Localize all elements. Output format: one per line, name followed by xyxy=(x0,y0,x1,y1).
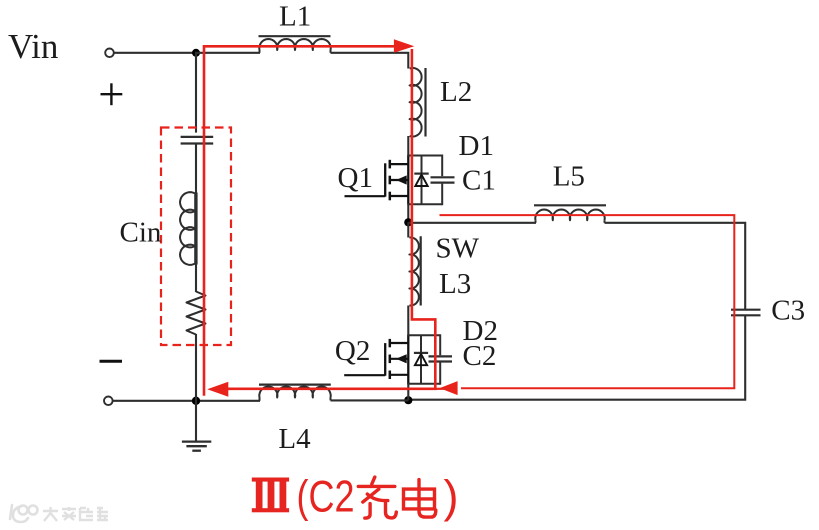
inductor L3 xyxy=(409,236,420,305)
svg-text:L4: L4 xyxy=(278,423,311,455)
svg-text:(C2: (C2 xyxy=(297,473,355,522)
transistor Q2 (N-MOSFET) xyxy=(344,339,408,379)
diode D1 (body diode) xyxy=(414,156,428,205)
wire: red current path left loop (Cin branch up, top rail right) xyxy=(204,46,396,396)
inductor L4 xyxy=(259,385,331,401)
snubber box of Q1 (D1/C1 parallel branch) xyxy=(407,155,442,206)
diode D2 (body diode) xyxy=(414,335,428,383)
inductor L5 xyxy=(534,205,606,223)
svg-text:C2: C2 xyxy=(463,340,497,372)
snubber box of Q2 (D2/C2 parallel branch) xyxy=(407,334,440,384)
transistor Q1 (N-MOSFET) xyxy=(345,160,409,201)
wire: bottom rail junction to L4 xyxy=(331,399,409,401)
wire: top rail to L1 xyxy=(195,52,260,54)
capacitor Cin plates xyxy=(181,137,214,144)
node SW junction xyxy=(404,218,412,226)
wire: input node down to Cin xyxy=(195,53,197,133)
svg-text:L2: L2 xyxy=(440,76,472,108)
caption roman numeral III xyxy=(252,478,289,513)
svg-text:D1: D1 xyxy=(459,130,494,162)
node: ground junction xyxy=(192,397,200,405)
svg-text:Q1: Q1 xyxy=(338,162,373,194)
capacitor C1 xyxy=(431,177,455,182)
wire: L5 to right rail xyxy=(605,223,746,309)
dashed box around Cin xyxy=(161,128,231,346)
svg-text:C1: C1 xyxy=(462,165,496,197)
red arrow left at bottom rail near ground xyxy=(207,382,228,397)
wire: L2 to Q1 drain xyxy=(407,136,409,157)
wire: ESR to ground rail xyxy=(195,334,197,401)
minus sign xyxy=(100,360,123,363)
inductor: Cin ESL coil xyxy=(180,192,197,265)
capacitor C2 xyxy=(429,356,453,361)
svg-text:Q2: Q2 xyxy=(335,335,370,367)
wire: Vin terminal to input node xyxy=(114,52,196,54)
wire: SW node down to L3 xyxy=(407,222,409,237)
svg-text:Vin: Vin xyxy=(8,27,58,66)
node: input junction xyxy=(192,49,200,57)
inductor L1 xyxy=(259,36,331,53)
node: bottom junction at Q2 source xyxy=(404,396,412,404)
watermark text xyxy=(43,507,108,521)
wire: Q1 drain-source channel line xyxy=(407,156,409,205)
wire: red current path C3 loop xyxy=(440,215,735,388)
caption hanzi chong (charge) xyxy=(358,477,396,518)
svg-text:SW: SW xyxy=(436,233,480,265)
Vin positive terminal xyxy=(105,49,114,58)
svg-text:): ) xyxy=(444,471,459,522)
capacitor C3 xyxy=(731,310,761,316)
wire: L3 to Q2 drain xyxy=(407,306,409,337)
red arrow left into C2 box xyxy=(440,381,458,395)
svg-text:L3: L3 xyxy=(439,268,471,300)
resistor: Cin ESR zigzag xyxy=(187,292,206,335)
caption hanzi dian (electric) xyxy=(404,480,436,517)
wire: red current path down through L2, Q1, L3 xyxy=(226,49,435,389)
plus sign xyxy=(101,83,123,105)
wire: SW node to L5 xyxy=(408,222,536,224)
svg-text:Cin: Cin xyxy=(120,217,162,249)
wire: Cin cap to ESL coil xyxy=(195,144,197,194)
svg-text:L1: L1 xyxy=(279,1,311,33)
wire: L1 to top-right corner, down to L2 xyxy=(331,53,409,69)
Vin negative terminal xyxy=(104,397,113,406)
watermark logo xyxy=(10,505,38,522)
wire: C3 to bottom rail xyxy=(412,315,745,399)
svg-text:C3: C3 xyxy=(771,294,805,326)
wire: Q1 source to SW node xyxy=(407,204,409,222)
red arrow right at top rail xyxy=(394,39,414,53)
wire: ESL to ESR xyxy=(195,264,197,293)
wire: Q2 source to bottom rail xyxy=(407,384,409,401)
inductor L2 xyxy=(410,68,426,137)
svg-text:L5: L5 xyxy=(553,161,585,193)
wire: L4 to ground node and negative terminal xyxy=(113,400,260,402)
ground xyxy=(182,401,211,451)
wire: Q2 drain-source channel line xyxy=(407,335,409,384)
